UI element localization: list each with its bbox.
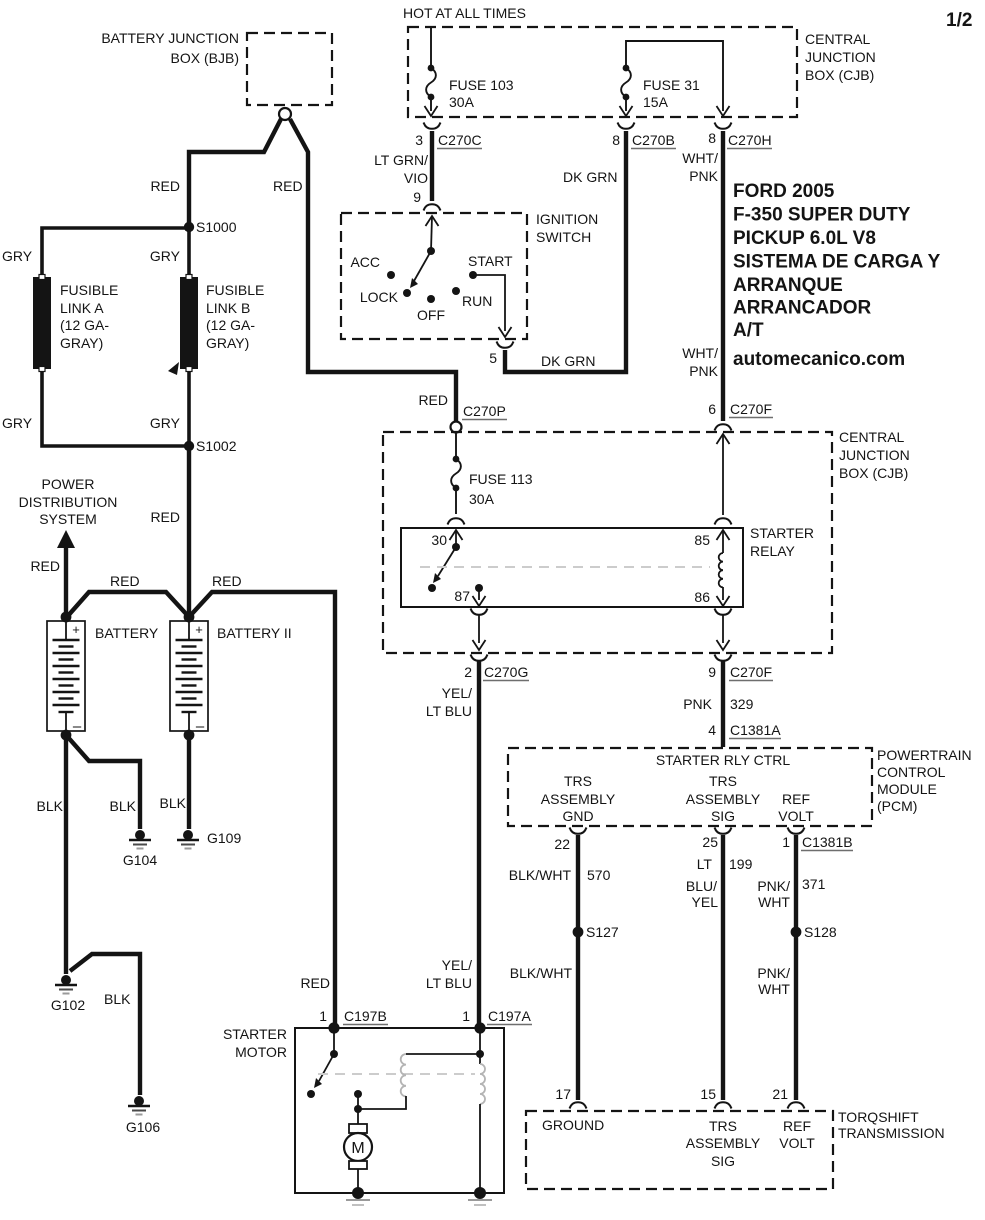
wire RED from BJB to S1000	[189, 119, 281, 223]
svg-text:G109: G109	[207, 830, 241, 846]
connector C270P ring	[451, 422, 462, 433]
svg-text:WHT/: WHT/	[682, 150, 718, 166]
svg-text:570: 570	[587, 867, 611, 883]
central junction box CJB (top) dashed outline	[408, 27, 797, 117]
connector cup at pin 5	[497, 342, 514, 348]
wire YEL/LT BLU C270G to starter	[477, 661, 481, 1026]
starter motor box	[295, 1028, 504, 1193]
powertrain control module dashed outline	[508, 748, 872, 826]
arrow 86 out of relay	[717, 596, 730, 606]
svg-text:ASSEMBLY: ASSEMBLY	[541, 791, 616, 807]
wire PNK 329 from C270F(9) to PCM	[721, 661, 725, 747]
arrow into C270H	[717, 106, 730, 116]
svg-text:ACC: ACC	[350, 254, 380, 270]
svg-text:RED: RED	[150, 178, 180, 194]
connector C270B cup	[618, 123, 635, 129]
wire GRY from S1000 left to link A	[42, 228, 189, 274]
solenoid switch feed	[333, 1028, 335, 1051]
wire BLK to G106	[70, 954, 140, 1095]
svg-text:1: 1	[462, 1008, 470, 1024]
svg-text:BLK/WHT: BLK/WHT	[509, 867, 572, 883]
solenoid node	[476, 1050, 484, 1058]
arrow into C270C	[425, 106, 438, 116]
svg-text:RELAY: RELAY	[750, 543, 796, 559]
hold-in winding feed	[479, 1054, 481, 1064]
label TRS ASSEMBLY SIG (trans)	[686, 1118, 761, 1169]
connector cup pin 25	[715, 828, 732, 834]
svg-text:15A: 15A	[643, 94, 669, 110]
label FUSE 113 30A	[469, 471, 533, 507]
svg-text:86: 86	[694, 589, 710, 605]
splice S128	[791, 924, 837, 940]
svg-text:WHT: WHT	[758, 894, 790, 910]
svg-text:FUSIBLE: FUSIBLE	[206, 282, 264, 298]
svg-text:TORQSHIFT: TORQSHIFT	[838, 1109, 919, 1125]
svg-text:CENTRAL: CENTRAL	[805, 31, 871, 47]
svg-text:FUSIBLE: FUSIBLE	[60, 282, 118, 298]
svg-text:RUN: RUN	[462, 293, 492, 309]
BJB output ring terminal	[279, 108, 291, 120]
terminal C197A node	[474, 1022, 485, 1033]
svg-text:PNK: PNK	[689, 363, 718, 379]
connector cup trans 17	[570, 1102, 587, 1108]
fuse F31 symbol	[621, 65, 631, 101]
svg-text:C270H: C270H	[728, 132, 772, 148]
label REF VOLT (trans)	[779, 1118, 815, 1151]
svg-text:TRS: TRS	[564, 773, 592, 789]
fuse F113 symbol	[451, 456, 461, 492]
svg-text:(12 GA-: (12 GA-	[206, 317, 255, 333]
svg-text:REF: REF	[783, 1118, 811, 1134]
label FUSE 103 30A	[449, 77, 514, 110]
svg-text:WHT: WHT	[758, 981, 790, 997]
wire RED to power distribution arrow	[64, 546, 68, 618]
wire PNK/WHT 371 PCM1 to trans 21	[794, 835, 798, 1100]
svg-text:BATTERY II: BATTERY II	[217, 625, 292, 641]
svg-text:GRY: GRY	[150, 248, 181, 264]
svg-text:RED: RED	[418, 392, 448, 408]
svg-text:GRY: GRY	[150, 415, 181, 431]
svg-text:REF: REF	[782, 791, 810, 807]
svg-text:START: START	[468, 253, 513, 269]
svg-text:RED: RED	[212, 573, 242, 589]
ignition switch arm	[410, 251, 431, 288]
svg-text:LT: LT	[697, 856, 713, 872]
relay open contact	[428, 584, 436, 592]
connector name C270B	[631, 132, 676, 149]
svg-text:GRAY): GRAY)	[60, 335, 103, 351]
svg-text:MODULE: MODULE	[877, 781, 937, 797]
svg-text:BOX (BJB): BOX (BJB)	[171, 50, 239, 66]
svg-text:LINK A: LINK A	[60, 300, 104, 316]
svg-text:1: 1	[319, 1008, 327, 1024]
svg-text:POWER: POWER	[42, 476, 95, 492]
label FUSIBLE LINK B (12 GA- GRAY)	[206, 282, 264, 351]
connector C270C cup	[424, 123, 441, 129]
wire winding to ground	[479, 1104, 481, 1193]
connector C270H cup	[715, 123, 732, 129]
connector name C197B	[343, 1008, 388, 1025]
connector name C270G	[483, 664, 529, 681]
arrow into relay 85	[717, 530, 730, 540]
svg-text:C270G: C270G	[484, 664, 528, 680]
svg-text:ASSEMBLY: ASSEMBLY	[686, 791, 761, 807]
svg-text:WHT/: WHT/	[682, 345, 718, 361]
svg-text:VIO: VIO	[404, 170, 428, 186]
wire GRY from link A down to S1002	[42, 372, 189, 446]
fusible link B	[180, 275, 198, 372]
wire BLK battery2 to G109	[187, 735, 191, 829]
ignition switch pivot	[427, 247, 435, 255]
svg-text:SISTEMA DE CARGA Y: SISTEMA DE CARGA Y	[733, 252, 941, 273]
svg-text:RED: RED	[110, 573, 140, 589]
relay internal dashed link	[420, 566, 710, 568]
splice S1002	[184, 438, 237, 454]
cup below relay (87)	[471, 609, 488, 615]
starter internal dashed link	[318, 1073, 475, 1075]
arrow into ignition switch	[426, 216, 439, 226]
label BATTERY JUNCTION BOX (BJB)	[101, 30, 239, 66]
svg-text:PNK: PNK	[683, 696, 712, 712]
svg-text:FUSE 113: FUSE 113	[469, 471, 533, 487]
svg-text:8: 8	[612, 132, 620, 148]
svg-text:ARRANQUE: ARRANQUE	[733, 275, 843, 296]
battery BATTERY symbol	[47, 621, 85, 735]
svg-text:22: 22	[554, 836, 570, 852]
svg-text:15: 15	[700, 1086, 716, 1102]
svg-text:LINK B: LINK B	[206, 300, 250, 316]
svg-text:PICKUP 6.0L V8: PICKUP 6.0L V8	[733, 228, 876, 249]
battery 1 negative terminal	[61, 730, 72, 741]
svg-text:4: 4	[708, 722, 716, 738]
svg-text:PNK/: PNK/	[757, 878, 790, 894]
moving contact upper	[354, 1090, 362, 1098]
svg-text:GND: GND	[562, 808, 593, 824]
svg-text:MOTOR: MOTOR	[235, 1044, 287, 1060]
svg-text:BLK: BLK	[37, 798, 64, 814]
solenoid ground node	[474, 1187, 486, 1199]
svg-text:JUNCTION: JUNCTION	[839, 447, 910, 463]
svg-text:PNK: PNK	[689, 168, 718, 184]
wire to pull-in winding	[406, 1053, 480, 1055]
arrow out of ignition switch pin 5	[499, 327, 512, 337]
svg-text:C270B: C270B	[632, 132, 675, 148]
wire LT GRN/VIO C270C to ignition switch	[430, 131, 434, 201]
label IGNITION SWITCH	[536, 211, 598, 245]
label STARTER RELAY	[750, 525, 814, 559]
svg-text:TRS: TRS	[709, 1118, 737, 1134]
svg-text:DK GRN: DK GRN	[563, 169, 617, 185]
svg-text:CONTROL: CONTROL	[877, 764, 946, 780]
wire motor to ground	[357, 1169, 359, 1193]
svg-text:C197B: C197B	[344, 1008, 387, 1024]
svg-text:C270F: C270F	[730, 664, 772, 680]
wire C197A into solenoid	[479, 1028, 481, 1051]
wire fuse 113 to relay	[455, 491, 457, 514]
connector name C270C	[437, 132, 482, 149]
solenoid open contact	[307, 1090, 315, 1098]
svg-text:8: 8	[708, 130, 716, 146]
moving contact lower	[354, 1105, 362, 1113]
solenoid switch arm	[314, 1054, 334, 1088]
label STARTER MOTOR	[223, 1026, 287, 1060]
svg-text:SIG: SIG	[711, 808, 735, 824]
svg-text:85: 85	[694, 532, 710, 548]
contact START	[469, 271, 477, 279]
label REF VOLT	[778, 791, 814, 824]
moving contact link	[357, 1094, 359, 1109]
wire RED battery bus left	[66, 592, 189, 618]
svg-text:CENTRAL: CENTRAL	[839, 429, 905, 445]
wire to switch pivot	[431, 216, 432, 251]
wire to CJB edge	[478, 615, 480, 643]
svg-text:M: M	[351, 1140, 364, 1157]
svg-text:YEL/: YEL/	[442, 957, 472, 973]
label TRS ASSEMBLY SIG	[686, 773, 761, 824]
svg-text:SYSTEM: SYSTEM	[39, 511, 97, 527]
solenoid ground hatch	[468, 1200, 492, 1205]
svg-text:BOX (CJB): BOX (CJB)	[805, 67, 874, 83]
connector C270G cup	[471, 655, 488, 661]
wire RED S1002 to battery II positive	[187, 446, 191, 617]
relay switch arm	[433, 547, 456, 583]
svg-text:BLK/WHT: BLK/WHT	[510, 965, 573, 981]
svg-text:BOX (CJB): BOX (CJB)	[839, 465, 908, 481]
svg-text:ARRANCADOR: ARRANCADOR	[733, 298, 872, 319]
connector cup trans 15	[715, 1102, 732, 1108]
svg-text:VOLT: VOLT	[778, 808, 814, 824]
svg-text:30A: 30A	[469, 491, 495, 507]
wire RED battery bus right to starter	[189, 592, 335, 1026]
label TRS ASSEMBLY GND	[541, 773, 616, 824]
label POWER DISTRIBUTION SYSTEM	[19, 476, 118, 527]
svg-text:371: 371	[802, 876, 826, 892]
torqshift transmission dashed outline	[526, 1111, 833, 1189]
arrow into relay 30	[450, 530, 463, 540]
wire GRY from link B down to S1002	[187, 372, 191, 446]
svg-text:RED: RED	[30, 558, 60, 574]
svg-text:BLK: BLK	[110, 798, 137, 814]
wire winding to contact	[358, 1096, 406, 1109]
connector C270F(9) cup	[715, 655, 732, 661]
svg-text:5: 5	[489, 350, 497, 366]
splice S1000	[184, 219, 237, 235]
svg-text:ASSEMBLY: ASSEMBLY	[686, 1135, 761, 1151]
svg-text:RED: RED	[273, 178, 303, 194]
svg-text:BATTERY: BATTERY	[95, 625, 159, 641]
svg-text:S1002: S1002	[196, 438, 237, 454]
svg-text:IGNITION: IGNITION	[536, 211, 598, 227]
svg-text:S127: S127	[586, 924, 619, 940]
svg-text:OFF: OFF	[417, 307, 445, 323]
wire contact to motor	[357, 1109, 359, 1124]
central junction box CJB (lower) dashed outline	[383, 432, 832, 653]
relay coil K1	[719, 553, 723, 587]
svg-text:HOT AT ALL TIMES: HOT AT ALL TIMES	[403, 5, 526, 21]
svg-text:LT BLU: LT BLU	[426, 975, 472, 991]
svg-text:S1000: S1000	[196, 219, 237, 235]
wire: fuse 103 to connector	[430, 100, 432, 111]
connector name C270F	[729, 664, 773, 681]
ground G104	[123, 830, 157, 868]
wire 87 down	[478, 588, 480, 600]
wire C270P to fuse 113	[455, 433, 457, 456]
label YEL/ LT BLU upper	[426, 685, 472, 719]
motor M1 symbol	[344, 1124, 372, 1169]
svg-text:BLK: BLK	[160, 795, 187, 811]
svg-text:C1381A: C1381A	[730, 722, 781, 738]
svg-text:BLU/: BLU/	[686, 878, 717, 894]
svg-text:1/2: 1/2	[946, 10, 972, 31]
svg-text:YEL/: YEL/	[442, 685, 472, 701]
svg-text:YEL: YEL	[692, 894, 719, 910]
svg-text:25: 25	[702, 834, 718, 850]
svg-text:C1381B: C1381B	[802, 834, 853, 850]
svg-text:21: 21	[772, 1086, 788, 1102]
wire BLK battery1 to G102	[64, 735, 68, 974]
svg-text:LT BLU: LT BLU	[426, 703, 472, 719]
battery BATTERY II symbol	[170, 621, 208, 735]
wire START contact to pin 5	[473, 275, 505, 331]
battery 1 positive terminal	[61, 612, 72, 623]
svg-text:BLK: BLK	[104, 991, 131, 1007]
svg-text:3: 3	[415, 132, 423, 148]
ground G109	[177, 830, 241, 849]
svg-text:GRY: GRY	[2, 248, 33, 264]
connector cup at ignition pin 9	[424, 204, 441, 210]
svg-text:FUSE 31: FUSE 31	[643, 77, 700, 93]
svg-text:6: 6	[708, 401, 716, 417]
svg-text:STARTER: STARTER	[223, 1026, 287, 1042]
contact LOCK	[403, 289, 411, 297]
ignition switch dashed outline	[341, 213, 527, 339]
pull-in winding coil	[401, 1054, 406, 1096]
label TORQSHIFT TRANSMISSION	[838, 1109, 945, 1141]
svg-text:C270P: C270P	[463, 403, 506, 419]
svg-text:A/T: A/T	[733, 320, 764, 341]
svg-text:VOLT: VOLT	[779, 1135, 815, 1151]
terminal C197B node	[328, 1022, 339, 1033]
svg-text:199: 199	[729, 856, 753, 872]
connector cup C270F (6)	[715, 424, 732, 430]
svg-text:2: 2	[464, 664, 472, 680]
svg-text:S128: S128	[804, 924, 837, 940]
wire BLK/WHT 570 PCM22 to trans 17	[576, 835, 580, 1100]
svg-text:G102: G102	[51, 997, 85, 1013]
wire BLK battery1 to G104	[66, 735, 140, 829]
connector name C270P	[462, 403, 507, 420]
label CENTRAL JUNCTION BOX (CJB) top	[805, 31, 876, 83]
wire to CJB edge	[722, 615, 724, 643]
starter relay box	[401, 528, 743, 607]
svg-text:POWERTRAIN: POWERTRAIN	[877, 747, 972, 763]
cup below relay (86)	[715, 609, 732, 615]
wire GRY from S1000 down to link B	[187, 227, 191, 274]
svg-text:STARTER RLY CTRL: STARTER RLY CTRL	[656, 752, 791, 768]
svg-text:30A: 30A	[449, 94, 475, 110]
wire: feed to fuse 103	[430, 27, 432, 65]
wire to relay contact pivot	[455, 530, 457, 544]
label LT GRN/ VIO	[374, 152, 428, 186]
solenoid switch pivot	[330, 1050, 338, 1058]
label POWERTRAIN CONTROL MODULE (PCM)	[877, 747, 972, 814]
svg-text:TRANSMISSION: TRANSMISSION	[838, 1125, 945, 1141]
connector name C197A	[487, 1008, 532, 1025]
svg-text:GRAY): GRAY)	[206, 335, 249, 351]
label PNK/ WHT lower	[757, 965, 790, 997]
svg-text:RED: RED	[150, 509, 180, 525]
label YEL/ LT BLU lower	[426, 957, 472, 991]
arrow into C270B	[620, 106, 633, 116]
label FUSIBLE LINK A (12 GA- GRAY)	[60, 282, 118, 351]
arrow out of CJB (C270G)	[473, 640, 486, 650]
svg-text:SWITCH: SWITCH	[536, 229, 591, 245]
svg-text:9: 9	[708, 664, 716, 680]
relay pivot contact	[452, 543, 460, 551]
wire coil to relay edge	[722, 587, 724, 600]
arrow 87 out of relay	[473, 596, 486, 606]
label PNK/ WHT upper	[757, 878, 790, 910]
connector name C1381B	[801, 834, 853, 851]
contact ACC	[387, 271, 395, 279]
ground G102	[51, 975, 85, 1013]
wire RED from BJB to C270P run	[290, 119, 456, 421]
contact RUN	[452, 287, 460, 295]
connector name C270F	[729, 401, 773, 418]
wire to coil	[722, 530, 724, 553]
connector name C1381A	[729, 722, 781, 739]
svg-text:SIG: SIG	[711, 1153, 735, 1169]
fuse F103 symbol	[426, 65, 436, 101]
svg-text:JUNCTION: JUNCTION	[805, 49, 876, 65]
relay coil chain: arrow into relay from C270F	[717, 434, 730, 444]
label FUSE 31 15A	[643, 77, 700, 110]
svg-text:PNK/: PNK/	[757, 965, 790, 981]
svg-text:17: 17	[555, 1086, 571, 1102]
wire WHT/PNK C270H down to C270F	[721, 131, 725, 421]
svg-text:C270C: C270C	[438, 132, 482, 148]
svg-text:87: 87	[454, 588, 470, 604]
svg-text:(12 GA-: (12 GA-	[60, 317, 109, 333]
svg-text:FORD 2005: FORD 2005	[733, 181, 835, 202]
label CENTRAL JUNCTION BOX (CJB) lower	[839, 429, 910, 481]
svg-text:G104: G104	[123, 852, 157, 868]
svg-text:C197A: C197A	[488, 1008, 531, 1024]
svg-text:(PCM): (PCM)	[877, 798, 917, 814]
svg-text:BATTERY JUNCTION: BATTERY JUNCTION	[101, 30, 239, 46]
power distribution arrowhead	[57, 530, 75, 548]
svg-text:GRY: GRY	[2, 415, 33, 431]
svg-text:9: 9	[413, 189, 421, 205]
contact OFF	[427, 295, 435, 303]
wire DK GRN pin5 joining C270B drop	[505, 131, 626, 372]
ground G106	[126, 1096, 160, 1135]
cup into relay terminal 85	[715, 518, 732, 524]
cup into relay terminal 30	[448, 518, 465, 524]
connector cup pin 1 (C1381B)	[788, 828, 805, 834]
svg-text:STARTER: STARTER	[750, 525, 814, 541]
connector cup trans 21	[788, 1102, 805, 1108]
svg-text:30: 30	[431, 532, 447, 548]
battery 2 negative terminal	[184, 730, 195, 741]
wire: bus branch to fuse 31 and C270H	[626, 41, 723, 111]
connector name C270H	[727, 132, 772, 149]
svg-text:329: 329	[730, 696, 754, 712]
svg-text:RED: RED	[300, 975, 330, 991]
svg-text:automecanico.com: automecanico.com	[733, 349, 905, 370]
motor ground hatch	[346, 1200, 370, 1205]
arrow marker at link B bottom	[168, 362, 179, 375]
